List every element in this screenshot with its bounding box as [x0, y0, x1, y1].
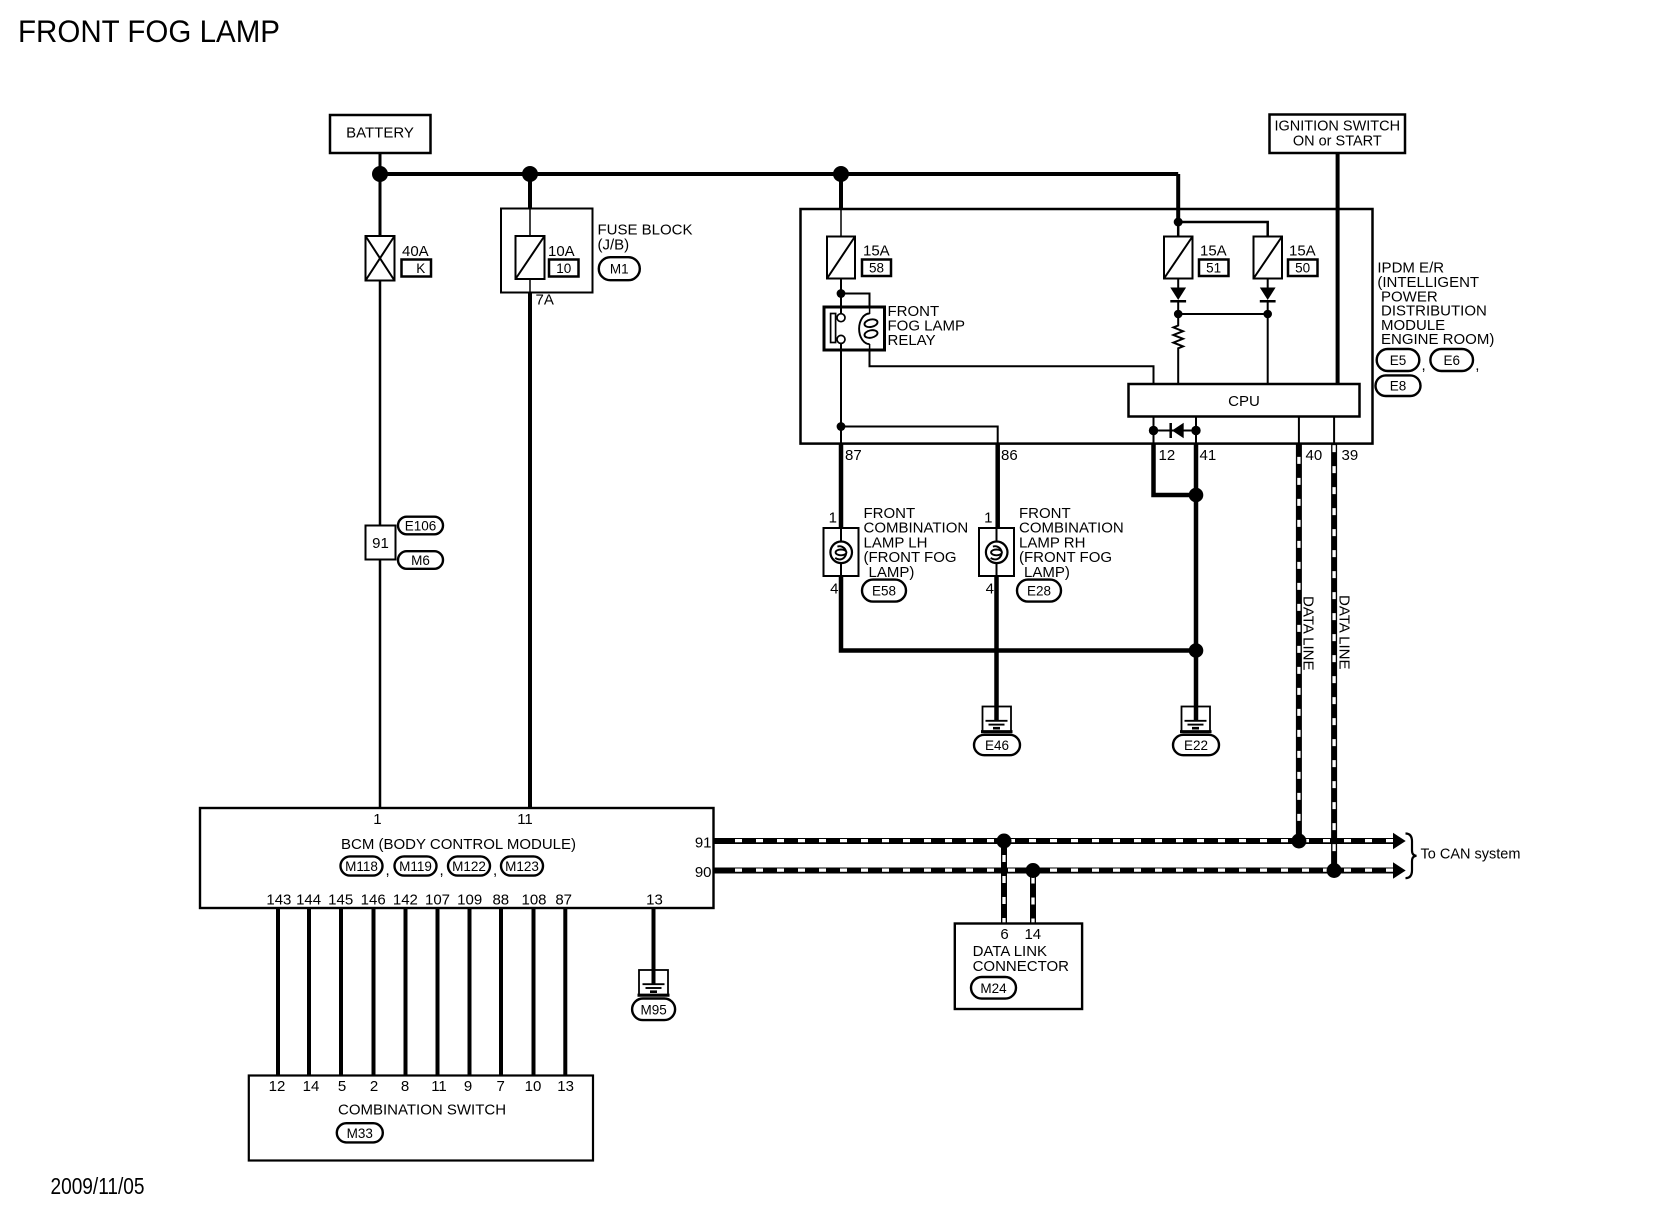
svg-text:88: 88 [492, 892, 509, 909]
connector E8 oval [1376, 375, 1421, 396]
svg-text:E28: E28 [1027, 584, 1051, 599]
svg-text:ENGINE ROOM): ENGINE ROOM) [1381, 331, 1494, 348]
wire lamp RH to ground E46 [994, 576, 999, 720]
svg-text:7: 7 [497, 1078, 505, 1095]
svg-text:145: 145 [328, 892, 353, 909]
wire relay coil to CPU [870, 350, 1154, 384]
svg-text:11: 11 [517, 811, 533, 828]
wire fuse 50 to diode [1267, 279, 1269, 289]
svg-text:12: 12 [1159, 447, 1176, 464]
svg-text:14: 14 [303, 1078, 320, 1095]
wire bus drop to IPDM fuses [1176, 174, 1180, 222]
svg-text:12: 12 [269, 1078, 286, 1095]
svg-text:FRONT FOG LAMP: FRONT FOG LAMP [18, 13, 280, 49]
brace to CAN system [1406, 834, 1417, 879]
svg-text:50: 50 [1295, 261, 1310, 276]
svg-text:LAMP): LAMP) [1024, 564, 1070, 581]
wire CPU pin 12 [1153, 417, 1155, 444]
data line drop to DLC 14 [1030, 871, 1036, 924]
wire junction to fuse 51 [1177, 222, 1180, 237]
svg-text:2009/11/05: 2009/11/05 [51, 1173, 145, 1199]
svg-text:1: 1 [984, 510, 992, 527]
fuse 10A [516, 236, 545, 279]
data line pin 39 vertical [1331, 444, 1337, 871]
wire pin 86 to lamp RH [995, 444, 1000, 528]
svg-text:E6: E6 [1443, 353, 1460, 368]
resistor [1173, 314, 1183, 384]
wire pin 87 to lamp LH [839, 444, 844, 528]
data line drop to DLC 6 [1001, 841, 1007, 924]
CPU box [1129, 384, 1360, 417]
svg-text:To CAN system: To CAN system [1421, 847, 1521, 863]
svg-text:M119: M119 [399, 859, 432, 874]
node rail left [1174, 310, 1183, 319]
lamp LH wire through [840, 528, 842, 576]
svg-text:M122: M122 [452, 859, 486, 874]
wire fuse 58 to relay contact [840, 279, 842, 315]
svg-text:BCM (BODY CONTROL MODULE): BCM (BODY CONTROL MODULE) [341, 836, 576, 853]
svg-text:108: 108 [521, 892, 546, 909]
svg-text:4: 4 [986, 581, 994, 598]
lamp LH bulb [830, 542, 852, 564]
svg-text:13: 13 [557, 1078, 574, 1095]
diode D51 [1170, 288, 1186, 302]
label K box [402, 260, 432, 277]
wire junction to fuse 50 [1178, 222, 1268, 237]
wire junction rail [1178, 313, 1268, 315]
connector E106 oval [398, 517, 443, 535]
wire CPU pin 39 [1333, 417, 1335, 444]
svg-text:39: 39 [1342, 447, 1359, 464]
node diode left [1149, 426, 1158, 435]
lamp LH box [824, 528, 859, 576]
ground E22 [1180, 707, 1212, 732]
fuse 15A 51 [1164, 237, 1193, 279]
wire IPDM top to fuse 58 [839, 174, 843, 209]
svg-text:CPU: CPU [1228, 393, 1260, 410]
wires BCM to combination switch [278, 908, 565, 1076]
connector E5 oval [1377, 349, 1426, 374]
node 91/40 [1291, 834, 1306, 849]
svg-text:M24: M24 [980, 981, 1007, 996]
svg-text:,: , [386, 862, 390, 879]
node pin 41/12 join [1189, 488, 1204, 503]
connector E58 oval [862, 580, 906, 602]
lamp RH bulb [986, 542, 1008, 564]
svg-text:ON or START: ON or START [1293, 134, 1382, 150]
svg-text:COMBINATION SWITCH: COMBINATION SWITCH [338, 1102, 506, 1119]
wire relay feed to coil [841, 294, 870, 308]
BCM box [200, 808, 714, 908]
svg-text:M118: M118 [345, 859, 378, 874]
svg-text:41: 41 [1200, 447, 1217, 464]
connector E46 oval [974, 735, 1020, 755]
svg-text:109: 109 [457, 892, 482, 909]
svg-text:10: 10 [525, 1078, 542, 1095]
wire battery to bus [379, 153, 382, 174]
svg-text:40: 40 [1306, 447, 1323, 464]
svg-text:M1: M1 [610, 262, 629, 277]
svg-text:10A: 10A [548, 243, 575, 260]
svg-text:15A: 15A [1289, 243, 1316, 260]
node ground rail [1189, 643, 1204, 658]
svg-text:9: 9 [464, 1078, 472, 1095]
wire bus to 40A fuse [379, 174, 382, 236]
svg-text:(J/B): (J/B) [598, 237, 630, 254]
wire diodes to junction rail [1177, 301, 1179, 314]
svg-text:58: 58 [869, 261, 884, 276]
wire connector 91 to BCM pin 1 [379, 560, 382, 809]
svg-text:51: 51 [1206, 261, 1221, 276]
svg-text:11: 11 [431, 1078, 447, 1095]
svg-text:142: 142 [393, 892, 418, 909]
svg-text:5: 5 [338, 1078, 346, 1095]
label 58 box [862, 260, 891, 277]
svg-text:10: 10 [556, 261, 571, 276]
connector M118 oval [341, 856, 390, 879]
svg-text:107: 107 [425, 892, 450, 909]
connector M122 oval [448, 856, 497, 879]
svg-text:E46: E46 [985, 738, 1009, 753]
diode CPU bypass [1154, 423, 1197, 439]
IPDM E/R box [801, 209, 1373, 444]
svg-text:91: 91 [695, 834, 712, 851]
node rail right [1263, 310, 1272, 319]
wire ignition to CPU [1336, 153, 1340, 384]
connector M95 oval [632, 999, 675, 1021]
connector E28 oval [1017, 580, 1061, 602]
connector M33 oval [337, 1123, 383, 1142]
svg-text:RELAY: RELAY [888, 332, 936, 349]
label 51 box [1199, 260, 1229, 277]
connector M6 oval [398, 551, 443, 569]
svg-text:M33: M33 [347, 1126, 373, 1141]
svg-text:4: 4 [830, 581, 838, 598]
svg-text:DATA LINE: DATA LINE [1300, 596, 1317, 670]
ignition switch box [1270, 115, 1406, 154]
node relay feed [837, 289, 846, 298]
connector M24 oval [971, 977, 1016, 999]
diode D50 [1260, 288, 1276, 302]
wire 40A fuse to connector 91 [379, 281, 382, 526]
front fog lamp relay [824, 307, 885, 350]
svg-text:91: 91 [372, 535, 389, 552]
svg-text:,: , [440, 862, 444, 879]
connector M123 oval [501, 856, 543, 875]
svg-text:2: 2 [370, 1078, 378, 1095]
svg-text:15A: 15A [863, 243, 890, 260]
node fuse block junction [522, 166, 538, 182]
label 50 box [1288, 260, 1318, 277]
svg-text:7A: 7A [536, 292, 554, 309]
svg-text:E8: E8 [1390, 379, 1407, 394]
fuse block J/B outline [501, 209, 593, 293]
svg-text:DATA LINE: DATA LINE [1336, 595, 1353, 669]
wire lamp LH to ground rail [841, 576, 1196, 651]
connector M119 oval [395, 856, 444, 879]
svg-text:146: 146 [361, 892, 386, 909]
wire fuse block to BCM pin 11 [528, 293, 532, 809]
connector M1 oval [599, 257, 640, 280]
wire BCM 13 to ground M95 [652, 908, 656, 985]
wire inside fuse block bottom [529, 279, 531, 293]
svg-text:144: 144 [296, 892, 321, 909]
svg-text:13: 13 [646, 892, 663, 909]
data link connector box [955, 924, 1082, 1010]
svg-text:E22: E22 [1184, 738, 1208, 753]
battery box [330, 115, 431, 153]
svg-text:E106: E106 [405, 519, 437, 534]
fusible link 40A K [366, 236, 395, 281]
node 90/DLC14 [1026, 863, 1041, 878]
connector 91 [366, 526, 396, 560]
svg-text:40A: 40A [402, 243, 429, 260]
svg-text:BATTERY: BATTERY [346, 125, 414, 142]
svg-text:15A: 15A [1200, 243, 1227, 260]
svg-text:IGNITION SWITCH: IGNITION SWITCH [1274, 119, 1400, 135]
svg-text:14: 14 [1024, 926, 1041, 943]
svg-text:E58: E58 [872, 584, 896, 599]
fuse 15A 58 [827, 237, 855, 279]
svg-text:M95: M95 [640, 1002, 666, 1017]
wire CPU pin 40 [1298, 417, 1300, 444]
wire pin 41 thick [1194, 444, 1199, 720]
svg-text:,: , [1422, 357, 1426, 374]
svg-text:,: , [493, 862, 497, 879]
label 10 box [549, 260, 579, 277]
node diode right [1191, 426, 1200, 435]
svg-text:M123: M123 [505, 859, 539, 874]
svg-text:1: 1 [373, 811, 381, 828]
BCM bottom pin labels [266, 892, 662, 909]
svg-text:90: 90 [695, 864, 712, 881]
svg-text:E5: E5 [1390, 353, 1407, 368]
ground E46 [981, 707, 1013, 732]
node fuse 51/50 junction [1174, 218, 1183, 227]
lamp RH wire through [996, 528, 998, 576]
svg-text:86: 86 [1001, 447, 1018, 464]
fuse 15A 50 [1254, 237, 1283, 279]
svg-text:87: 87 [845, 447, 862, 464]
data line CAN-L horizontal 90 [714, 862, 1406, 879]
wire fuse 51 to diode [1177, 279, 1179, 289]
combination switch pin labels [269, 1078, 574, 1095]
wire pin 12 thick [1154, 444, 1197, 495]
node 91/DLC6 [997, 834, 1012, 849]
node 90/39 [1327, 863, 1342, 878]
svg-text:6: 6 [1000, 926, 1008, 943]
data line pin 40 vertical [1296, 444, 1302, 841]
svg-text:CONNECTOR: CONNECTOR [973, 958, 1070, 975]
svg-text:143: 143 [266, 892, 291, 909]
wire bus to fuse block [528, 174, 532, 209]
node battery junction [372, 166, 388, 182]
combination switch box [249, 1076, 593, 1161]
wire main battery bus [380, 172, 1178, 176]
node IPDM 58 feed junction [833, 166, 849, 182]
svg-text:M6: M6 [411, 553, 430, 568]
svg-text:1: 1 [829, 510, 837, 527]
svg-text:8: 8 [401, 1078, 409, 1095]
wire inside fuse block top [529, 209, 531, 237]
ground M95 [638, 970, 670, 995]
node pin 86 branch [837, 422, 846, 431]
wire rail right to CPU [1267, 314, 1269, 384]
data line CAN-H horizontal 91 [714, 833, 1406, 850]
connector E6 oval [1430, 349, 1479, 374]
svg-text:87: 87 [555, 892, 572, 909]
wire relay contact to pin 87 [840, 343, 842, 443]
svg-text:K: K [416, 261, 425, 276]
svg-text:LAMP): LAMP) [869, 564, 915, 581]
lamp RH box [979, 528, 1014, 576]
svg-text:,: , [1475, 357, 1479, 374]
wire branch to pin 86 [841, 427, 998, 444]
wire CPU pin 41 [1195, 417, 1197, 444]
connector E22 oval [1173, 735, 1219, 755]
